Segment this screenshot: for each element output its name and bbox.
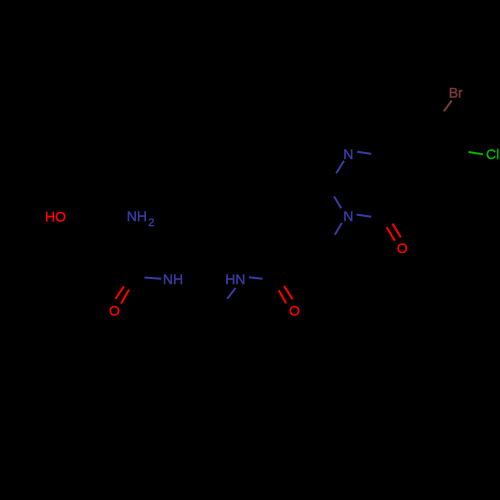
svg-text:O: O — [109, 302, 120, 318]
svg-text:Br: Br — [449, 84, 463, 100]
svg-text:N: N — [343, 146, 353, 162]
svg-text:N: N — [343, 208, 353, 224]
svg-text:O: O — [289, 302, 300, 318]
svg-text:O: O — [397, 240, 408, 256]
svg-text:Cl: Cl — [486, 146, 499, 162]
svg-text:HN: HN — [225, 271, 245, 287]
svg-text:NH: NH — [163, 271, 183, 287]
svg-text:HO: HO — [45, 208, 66, 224]
